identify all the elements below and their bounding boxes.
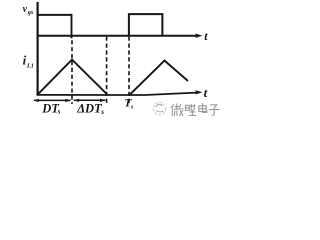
bottom t-axis (37, 93, 197, 95)
bottom t-axis arrowhead (196, 90, 203, 94)
dashed line at dDTs boundary (x=106.6) (106, 37, 108, 103)
dashed line at DTs boundary (x=72) (71, 40, 73, 104)
dashed line at Ts boundary (x=129) (128, 37, 130, 104)
label dDTs (76, 101, 104, 116)
char 微 (171, 104, 183, 116)
v_gs pulse 2 (129, 14, 163, 36)
i_L1 triangle 1 (38, 60, 107, 95)
svg-text:gs: gs (27, 9, 34, 16)
label Ts (124, 98, 134, 111)
svg-text:s: s (100, 108, 104, 116)
label v_gs (23, 4, 34, 16)
dimension line DTs (34, 99, 71, 101)
v_gs pulse 1 falling edge (71, 14, 73, 39)
svg-text:t: t (204, 85, 208, 100)
svg-text:s: s (57, 107, 61, 115)
dimension line dDTs (74, 99, 106, 101)
svg-text:L1: L1 (26, 63, 34, 70)
svg-text:s: s (130, 104, 134, 111)
char 电 (199, 104, 207, 113)
watermark logo circle (153, 102, 165, 114)
top t-axis (37, 35, 198, 37)
v_gs pulse 1 top (37, 14, 72, 16)
watermark text 微塑电子 (hand-drawn glyphs) (171, 104, 219, 116)
vertical axis (shared y-axis line) (36, 2, 38, 95)
label i_L1 (23, 52, 34, 69)
label DTs (41, 101, 60, 115)
char 子 (209, 105, 219, 115)
char 塑 (185, 104, 195, 115)
i_L1 triangle 2 (130, 61, 188, 95)
top t-axis arrowhead (196, 34, 203, 38)
svg-text:ΔDT: ΔDT (76, 101, 103, 115)
